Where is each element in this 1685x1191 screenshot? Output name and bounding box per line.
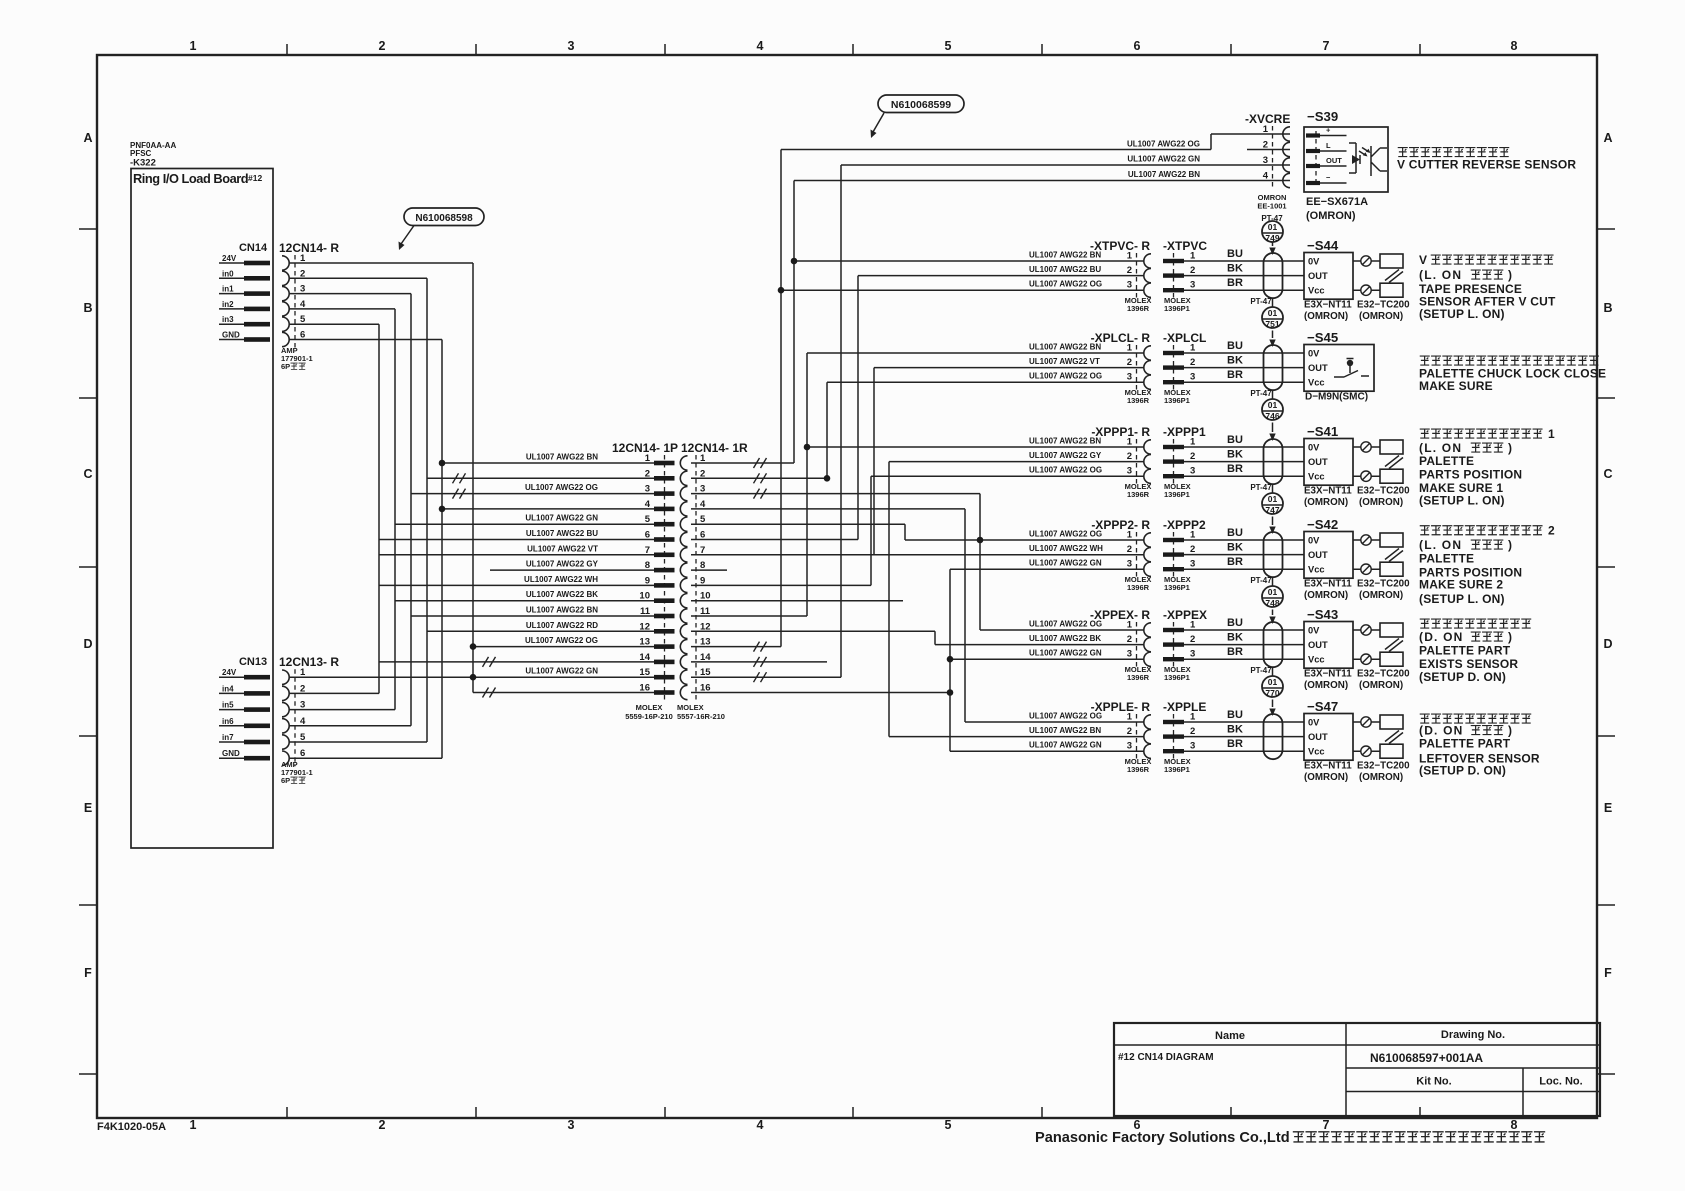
svg-text:12: 12	[700, 621, 711, 632]
svg-text:F4K1020-05A: F4K1020-05A	[97, 1121, 166, 1133]
svg-text:V: V	[1419, 253, 1427, 267]
svg-text:+: +	[1326, 126, 1331, 135]
svg-text:UL1007 AWG22 OG: UL1007 AWG22 OG	[1029, 466, 1102, 475]
svg-text:E: E	[1604, 801, 1612, 815]
svg-text:3: 3	[1190, 466, 1195, 477]
svg-text:BR: BR	[1227, 738, 1243, 750]
svg-text:8: 8	[1511, 39, 1518, 53]
svg-text:1: 1	[1190, 530, 1196, 541]
svg-text:1396R: 1396R	[1127, 490, 1150, 499]
svg-text:1: 1	[645, 453, 651, 464]
svg-text:): )	[1508, 441, 1512, 455]
svg-text:01: 01	[1268, 587, 1278, 597]
svg-text:in3: in3	[222, 315, 234, 324]
svg-text:13: 13	[639, 637, 650, 648]
svg-text:1: 1	[1127, 343, 1133, 354]
svg-text:1: 1	[300, 253, 306, 264]
svg-text:4: 4	[300, 716, 306, 727]
svg-text:(OMRON): (OMRON)	[1304, 680, 1348, 691]
svg-text:UL1007 AWG22 OG: UL1007 AWG22 OG	[1029, 620, 1102, 629]
svg-text:6: 6	[300, 330, 305, 341]
svg-text:BU: BU	[1227, 248, 1243, 260]
svg-text:1396R: 1396R	[1127, 304, 1150, 313]
svg-text:(SETUP D. ON): (SETUP D. ON)	[1419, 763, 1506, 777]
svg-text:4: 4	[300, 299, 306, 310]
svg-text:UL1007 AWG22 GN: UL1007 AWG22 GN	[1029, 559, 1102, 568]
svg-text:7: 7	[1323, 1118, 1330, 1132]
svg-text:): )	[1508, 630, 1512, 644]
svg-text:746: 746	[1265, 411, 1279, 421]
svg-text:747: 747	[1265, 505, 1279, 515]
svg-text:2: 2	[1190, 634, 1195, 645]
svg-text:3: 3	[300, 284, 305, 295]
svg-text:−S44: −S44	[1307, 238, 1339, 253]
svg-text:OUT: OUT	[1308, 640, 1328, 650]
svg-text:−S39: −S39	[1307, 109, 1338, 124]
svg-text:1: 1	[190, 1118, 197, 1132]
svg-text:-XPPP2: -XPPP2	[1163, 518, 1206, 532]
svg-text:UL1007 AWG22 OG: UL1007 AWG22 OG	[1029, 372, 1102, 381]
svg-text:2: 2	[1190, 357, 1195, 368]
svg-text:PALETTE: PALETTE	[1419, 454, 1474, 468]
svg-text:1: 1	[190, 39, 197, 53]
svg-text:D: D	[1603, 637, 1612, 651]
svg-text:PT-47: PT-47	[1250, 483, 1272, 492]
svg-text:4: 4	[700, 499, 706, 510]
svg-text:2: 2	[1263, 140, 1268, 151]
svg-text:2: 2	[1190, 451, 1195, 462]
svg-text:UL1007 AWG22 BK: UL1007 AWG22 BK	[526, 590, 598, 599]
svg-text:1: 1	[1127, 251, 1133, 262]
svg-text:6: 6	[1134, 39, 1141, 53]
svg-text:01: 01	[1268, 494, 1278, 504]
svg-text:UL1007 AWG22 BU: UL1007 AWG22 BU	[1029, 265, 1101, 274]
svg-text:24V: 24V	[222, 668, 237, 677]
svg-text:UL1007 AWG22 GN: UL1007 AWG22 GN	[1029, 741, 1102, 750]
svg-text:1: 1	[1263, 124, 1269, 135]
svg-text:3: 3	[300, 700, 305, 711]
svg-text:15: 15	[639, 667, 650, 678]
svg-text:EXISTS SENSOR: EXISTS SENSOR	[1419, 657, 1518, 671]
svg-text:OUT: OUT	[1308, 271, 1328, 281]
svg-text:0V: 0V	[1308, 349, 1320, 359]
svg-text:1396P1: 1396P1	[1164, 490, 1190, 499]
svg-text:(OMRON): (OMRON)	[1359, 590, 1403, 601]
svg-text:6P: 6P	[281, 776, 290, 785]
svg-text:UL1007 AWG22 WH: UL1007 AWG22 WH	[524, 575, 598, 584]
svg-text:BU: BU	[1227, 527, 1243, 539]
svg-text:3: 3	[1127, 280, 1132, 291]
svg-text:(L. ON: (L. ON	[1419, 268, 1462, 282]
svg-text:Vcc: Vcc	[1308, 655, 1325, 665]
svg-text:−S41: −S41	[1307, 424, 1338, 439]
svg-text:3: 3	[1190, 649, 1195, 660]
svg-text:UL1007 AWG22 BN: UL1007 AWG22 BN	[1029, 726, 1101, 735]
svg-text:(OMRON): (OMRON)	[1359, 772, 1403, 783]
svg-text:0V: 0V	[1308, 718, 1320, 728]
svg-text:(SETUP D. ON): (SETUP D. ON)	[1419, 670, 1506, 684]
svg-text:N610068598: N610068598	[415, 213, 473, 224]
svg-text:E32−TC200: E32−TC200	[1357, 486, 1410, 497]
svg-text:−S42: −S42	[1307, 517, 1338, 532]
svg-text:1396P1: 1396P1	[1164, 396, 1190, 405]
svg-text:Drawing No.: Drawing No.	[1441, 1029, 1505, 1041]
svg-text:2: 2	[1190, 265, 1195, 276]
svg-text:BK: BK	[1227, 355, 1243, 367]
svg-text:OUT: OUT	[1308, 550, 1328, 560]
svg-text:11: 11	[700, 606, 711, 617]
svg-text:5: 5	[700, 514, 706, 525]
svg-text:PALETTE PART: PALETTE PART	[1419, 737, 1511, 751]
svg-text:UL1007 AWG22 GN: UL1007 AWG22 GN	[1127, 155, 1200, 164]
svg-text:751: 751	[1265, 319, 1279, 329]
svg-text:2: 2	[379, 1118, 386, 1132]
svg-text:3: 3	[645, 484, 650, 495]
svg-text:E3X−NT11: E3X−NT11	[1304, 669, 1352, 680]
svg-text:1: 1	[1190, 620, 1196, 631]
svg-text:PT-47: PT-47	[1250, 666, 1272, 675]
svg-text:UL1007 AWG22 BN: UL1007 AWG22 BN	[1029, 251, 1101, 260]
svg-text:UL1007 AWG22 OG: UL1007 AWG22 OG	[1029, 530, 1102, 539]
svg-text:GND: GND	[222, 331, 240, 340]
svg-text:12CN13- R: 12CN13- R	[279, 655, 339, 669]
svg-text:3: 3	[1127, 466, 1132, 477]
svg-text:2: 2	[1127, 265, 1132, 276]
svg-text:2: 2	[1127, 544, 1132, 555]
svg-text:UL1007 AWG22 VT: UL1007 AWG22 VT	[1029, 357, 1100, 366]
svg-text:UL1007 AWG22 BN: UL1007 AWG22 BN	[1029, 343, 1101, 352]
svg-text:CN14: CN14	[239, 242, 268, 254]
svg-text:3: 3	[1127, 559, 1132, 570]
svg-text:E: E	[84, 801, 92, 815]
svg-text:4: 4	[645, 499, 651, 510]
svg-text:MAKE SURE 2: MAKE SURE 2	[1419, 578, 1503, 592]
svg-text:748: 748	[1265, 598, 1279, 608]
svg-text:UL1007 AWG22 BN: UL1007 AWG22 BN	[526, 453, 598, 462]
svg-text:E32−TC200: E32−TC200	[1357, 300, 1410, 311]
svg-text:Vcc: Vcc	[1308, 472, 1325, 482]
svg-text:-XTPVC: -XTPVC	[1163, 239, 1207, 253]
svg-text:#12: #12	[248, 173, 262, 183]
svg-text:1: 1	[1127, 712, 1133, 723]
svg-text:BR: BR	[1227, 556, 1243, 568]
svg-text:(OMRON): (OMRON)	[1304, 497, 1348, 508]
svg-text:3: 3	[1190, 559, 1195, 570]
svg-text:-XPPP1: -XPPP1	[1163, 425, 1206, 439]
svg-text:4: 4	[1263, 171, 1269, 182]
svg-text:N610068599: N610068599	[891, 99, 951, 111]
svg-text:1396R: 1396R	[1127, 396, 1150, 405]
svg-text:24V: 24V	[222, 254, 237, 263]
svg-text:1: 1	[1190, 251, 1196, 262]
svg-text:UL1007 AWG22 GN: UL1007 AWG22 GN	[1029, 649, 1102, 658]
svg-text:3: 3	[1127, 372, 1132, 383]
svg-text:UL1007 AWG22 GY: UL1007 AWG22 GY	[526, 560, 599, 569]
svg-text:(L. ON: (L. ON	[1419, 441, 1462, 455]
svg-text:749: 749	[1265, 233, 1279, 243]
svg-text:2: 2	[1127, 451, 1132, 462]
svg-text:UL1007 AWG22 OG: UL1007 AWG22 OG	[1127, 140, 1200, 149]
svg-text:PT-47: PT-47	[1250, 297, 1272, 306]
svg-text:UL1007 AWG22 BU: UL1007 AWG22 BU	[526, 529, 598, 538]
svg-text:(OMRON): (OMRON)	[1304, 311, 1348, 322]
svg-text:BU: BU	[1227, 709, 1243, 721]
svg-text:UL1007 AWG22 BK: UL1007 AWG22 BK	[1029, 634, 1101, 643]
svg-text:PALETTE: PALETTE	[1419, 552, 1474, 566]
svg-text:BR: BR	[1227, 277, 1243, 289]
svg-text:OUT: OUT	[1308, 363, 1328, 373]
svg-text:UL1007 AWG22 GN: UL1007 AWG22 GN	[525, 667, 598, 676]
svg-text:(OMRON): (OMRON)	[1304, 772, 1348, 783]
svg-text:#12 CN14 DIAGRAM: #12 CN14 DIAGRAM	[1118, 1052, 1214, 1063]
svg-text:(L. ON: (L. ON	[1419, 538, 1462, 552]
svg-text:1: 1	[700, 453, 706, 464]
svg-text:in2: in2	[222, 300, 234, 309]
svg-text:E3X−NT11: E3X−NT11	[1304, 761, 1352, 772]
svg-text:Vcc: Vcc	[1308, 286, 1325, 296]
svg-text:12: 12	[639, 621, 650, 632]
svg-text:PARTS POSITION: PARTS POSITION	[1419, 467, 1522, 481]
svg-text:5: 5	[945, 1118, 952, 1132]
svg-text:10: 10	[700, 591, 711, 602]
svg-text:7: 7	[1323, 39, 1330, 53]
svg-text:BK: BK	[1227, 632, 1243, 644]
svg-text:UL1007 AWG22 VT: UL1007 AWG22 VT	[527, 544, 598, 553]
svg-text:4: 4	[757, 39, 764, 53]
svg-text:5: 5	[300, 314, 306, 325]
svg-text:8: 8	[1511, 1118, 1518, 1132]
svg-text:UL1007 AWG22 WH: UL1007 AWG22 WH	[1029, 544, 1103, 553]
svg-text:−: −	[1326, 173, 1331, 182]
svg-text:EE-1001: EE-1001	[1257, 202, 1286, 211]
svg-text:E32−TC200: E32−TC200	[1357, 579, 1410, 590]
svg-text:BR: BR	[1227, 463, 1243, 475]
svg-text:B: B	[83, 301, 92, 315]
svg-text:V CUTTER REVERSE SENSOR: V CUTTER REVERSE SENSOR	[1397, 158, 1576, 172]
svg-text:N610068597+001AA: N610068597+001AA	[1370, 1051, 1483, 1065]
svg-text:(SETUP L. ON): (SETUP L. ON)	[1419, 494, 1505, 508]
svg-text:Kit No.: Kit No.	[1416, 1076, 1451, 1088]
svg-text:(SETUP L. ON): (SETUP L. ON)	[1419, 592, 1505, 606]
svg-text:UL1007 AWG22 BN: UL1007 AWG22 BN	[1029, 437, 1101, 446]
svg-text:MOLEX: MOLEX	[677, 703, 704, 712]
svg-text:2: 2	[700, 468, 705, 479]
svg-text:BU: BU	[1227, 617, 1243, 629]
svg-text:01: 01	[1268, 400, 1278, 410]
svg-text:3: 3	[1190, 280, 1195, 291]
svg-text:3: 3	[1127, 741, 1132, 752]
svg-text:(OMRON): (OMRON)	[1304, 590, 1348, 601]
svg-text:01: 01	[1268, 677, 1278, 687]
svg-text:5: 5	[645, 514, 651, 525]
svg-text:01: 01	[1268, 222, 1278, 232]
svg-text:1: 1	[1190, 437, 1196, 448]
svg-text:2: 2	[300, 268, 305, 279]
svg-text:3: 3	[1190, 372, 1195, 383]
svg-text:-XPPLE: -XPPLE	[1163, 700, 1206, 714]
svg-text:UL1007 AWG22 BN: UL1007 AWG22 BN	[526, 606, 598, 615]
svg-text:15: 15	[700, 667, 711, 678]
svg-text:14: 14	[639, 652, 650, 663]
svg-text:UL1007 AWG22 OG: UL1007 AWG22 OG	[1029, 712, 1102, 721]
svg-text:(OMRON): (OMRON)	[1359, 311, 1403, 322]
svg-text:E3X−NT11: E3X−NT11	[1304, 486, 1352, 497]
svg-text:BK: BK	[1227, 724, 1243, 736]
svg-text:OUT: OUT	[1326, 156, 1342, 165]
svg-text:5559-16P-210: 5559-16P-210	[625, 712, 673, 721]
svg-text:A: A	[1603, 131, 1612, 145]
svg-text:UL1007 AWG22 OG: UL1007 AWG22 OG	[1029, 280, 1102, 289]
svg-text:(D. ON: (D. ON	[1419, 630, 1464, 644]
svg-text:770: 770	[1265, 688, 1279, 698]
svg-text:8: 8	[700, 560, 705, 571]
svg-text:UL1007 AWG22 GY: UL1007 AWG22 GY	[1029, 451, 1102, 460]
svg-text:1396P1: 1396P1	[1164, 304, 1190, 313]
svg-text:16: 16	[700, 683, 711, 694]
svg-text:1396R: 1396R	[1127, 673, 1150, 682]
svg-text:E32−TC200: E32−TC200	[1357, 761, 1410, 772]
svg-text:(SETUP L. ON): (SETUP L. ON)	[1419, 307, 1505, 321]
svg-text:16: 16	[639, 683, 650, 694]
svg-text:Vcc: Vcc	[1308, 378, 1325, 388]
svg-text:Ring I/O Load Board: Ring I/O Load Board	[133, 171, 248, 186]
svg-text:2: 2	[1548, 524, 1555, 538]
svg-text:-XPLCL: -XPLCL	[1163, 331, 1206, 345]
svg-text:(D. ON: (D. ON	[1419, 724, 1464, 738]
svg-text:PT-47: PT-47	[1250, 576, 1272, 585]
svg-text:B: B	[1603, 301, 1612, 315]
svg-text:1: 1	[300, 667, 306, 678]
svg-text:2: 2	[300, 683, 305, 694]
svg-text:5557-16R-210: 5557-16R-210	[677, 712, 725, 721]
svg-text:C: C	[83, 467, 92, 481]
svg-text:E3X−NT11: E3X−NT11	[1304, 300, 1352, 311]
svg-text:3: 3	[700, 484, 705, 495]
svg-text:PT-47: PT-47	[1250, 389, 1272, 398]
svg-text:A: A	[83, 131, 92, 145]
svg-text:2: 2	[645, 468, 650, 479]
svg-text:7: 7	[645, 545, 650, 556]
svg-text:BK: BK	[1227, 449, 1243, 461]
svg-text:10: 10	[639, 591, 650, 602]
svg-text:12CN14- R: 12CN14- R	[279, 241, 339, 255]
svg-text:CN13: CN13	[239, 656, 267, 668]
svg-text:6: 6	[700, 530, 705, 541]
svg-text:1: 1	[1190, 343, 1196, 354]
svg-text:Vcc: Vcc	[1308, 565, 1325, 575]
svg-text:8: 8	[645, 560, 650, 571]
svg-text:11: 11	[640, 606, 651, 617]
svg-text:Vcc: Vcc	[1308, 747, 1325, 757]
svg-text:D−M9N(SMC): D−M9N(SMC)	[1305, 392, 1368, 403]
svg-text:in6: in6	[222, 717, 234, 726]
svg-text:0V: 0V	[1308, 443, 1320, 453]
svg-text:14: 14	[700, 652, 711, 663]
svg-text:in5: in5	[222, 701, 234, 710]
svg-text:7: 7	[700, 545, 705, 556]
svg-text:GND: GND	[222, 749, 240, 758]
svg-text:4: 4	[757, 1118, 764, 1132]
svg-text:5: 5	[300, 732, 306, 743]
svg-text:BR: BR	[1227, 369, 1243, 381]
svg-text:6: 6	[300, 748, 305, 759]
svg-text:1: 1	[1127, 437, 1133, 448]
svg-text:9: 9	[645, 575, 650, 586]
svg-text:UL1007 AWG22 GN: UL1007 AWG22 GN	[525, 514, 598, 523]
svg-text:2: 2	[379, 39, 386, 53]
svg-text:OUT: OUT	[1308, 732, 1328, 742]
svg-text:in7: in7	[222, 733, 234, 742]
svg-text:in4: in4	[222, 684, 234, 693]
svg-text:BU: BU	[1227, 340, 1243, 352]
svg-text:−S47: −S47	[1307, 699, 1338, 714]
svg-text:E32−TC200: E32−TC200	[1357, 669, 1410, 680]
svg-text:-XPPEX: -XPPEX	[1163, 608, 1207, 622]
svg-text:2: 2	[1127, 634, 1132, 645]
svg-text:13: 13	[700, 637, 711, 648]
svg-text:5: 5	[945, 39, 952, 53]
svg-text:): )	[1508, 268, 1512, 282]
svg-text:1: 1	[1548, 427, 1555, 441]
svg-text:L: L	[1326, 141, 1331, 150]
svg-text:BK: BK	[1227, 542, 1243, 554]
svg-text:in0: in0	[222, 269, 234, 278]
svg-text:UL1007 AWG22 OG: UL1007 AWG22 OG	[525, 636, 598, 645]
svg-text:2: 2	[1190, 544, 1195, 555]
svg-text:9: 9	[700, 575, 705, 586]
svg-text:0V: 0V	[1308, 536, 1320, 546]
svg-text:): )	[1508, 724, 1512, 738]
svg-text:(OMRON): (OMRON)	[1359, 497, 1403, 508]
svg-text:in1: in1	[222, 285, 234, 294]
svg-text:MAKE SURE: MAKE SURE	[1419, 379, 1493, 393]
svg-text:PALETTE PART: PALETTE PART	[1419, 644, 1511, 658]
svg-text:UL1007 AWG22 BN: UL1007 AWG22 BN	[1128, 170, 1200, 179]
svg-text:BU: BU	[1227, 434, 1243, 446]
svg-text:3: 3	[1127, 649, 1132, 660]
svg-text:F: F	[84, 966, 92, 980]
svg-text:E3X−NT11: E3X−NT11	[1304, 579, 1352, 590]
svg-text:MOLEX: MOLEX	[636, 703, 663, 712]
svg-text:12CN14- 1R: 12CN14- 1R	[681, 441, 748, 455]
svg-text:2: 2	[1127, 357, 1132, 368]
svg-text:BR: BR	[1227, 646, 1243, 658]
svg-text:3: 3	[568, 39, 575, 53]
svg-text:2: 2	[1127, 726, 1132, 737]
svg-text:1396P1: 1396P1	[1164, 673, 1190, 682]
svg-text:1: 1	[1190, 712, 1196, 723]
svg-text:Loc. No.: Loc. No.	[1539, 1076, 1582, 1088]
svg-text:OUT: OUT	[1308, 457, 1328, 467]
svg-text:Name: Name	[1215, 1030, 1245, 1042]
svg-text:6P: 6P	[281, 362, 290, 371]
svg-text:F: F	[1604, 966, 1612, 980]
svg-text:0V: 0V	[1308, 626, 1320, 636]
svg-text:−S45: −S45	[1307, 330, 1338, 345]
svg-text:3: 3	[1190, 741, 1195, 752]
svg-text:01: 01	[1268, 308, 1278, 318]
svg-text:UL1007 AWG22 OG: UL1007 AWG22 OG	[525, 483, 598, 492]
svg-text:1396R: 1396R	[1127, 583, 1150, 592]
svg-text:Panasonic Factory Solutions Co: Panasonic Factory Solutions Co.,Ltd	[1035, 1130, 1290, 1146]
svg-text:1: 1	[1127, 620, 1133, 631]
svg-text:C: C	[1603, 467, 1612, 481]
svg-text:1396P1: 1396P1	[1164, 765, 1190, 774]
svg-text:EE−SX671A: EE−SX671A	[1306, 196, 1368, 208]
svg-text:1396R: 1396R	[1127, 765, 1150, 774]
svg-text:1: 1	[1127, 530, 1133, 541]
svg-text:BK: BK	[1227, 263, 1243, 275]
